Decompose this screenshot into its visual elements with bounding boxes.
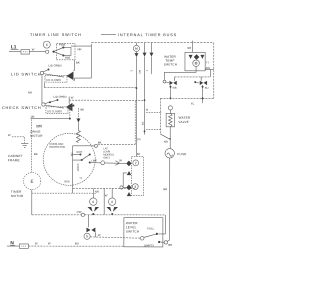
dashed buss lower [73, 187, 136, 189]
motor switch arrow bottom [127, 192, 131, 196]
svg-text:W: W [146, 109, 149, 112]
svg-text:2: 2 [130, 70, 133, 72]
contact jaws [106, 207, 111, 212]
valve drop wires with junctions [169, 85, 171, 98]
svg-text:MOTOR: MOTOR [30, 134, 43, 138]
wire NR to buss [71, 45, 91, 47]
svg-text:SWITCH: SWITCH [126, 229, 139, 233]
lid switch blade [43, 74, 64, 77]
long wire y215 [32, 214, 81, 216]
drive motor circle [43, 133, 95, 185]
svg-text:1M: 1M [30, 115, 35, 119]
water temp switch box [185, 52, 205, 71]
right valve contacts [200, 81, 204, 85]
blade to full [144, 234, 157, 238]
temp switch rotor [193, 60, 200, 67]
fuse F1 [165, 149, 174, 158]
motor switch contact diamond upper [126, 161, 131, 167]
motor terminal [94, 144, 97, 147]
check switch lid closed box [46, 107, 68, 114]
buss drop to temp switch [191, 41, 193, 53]
check switch contact dot 2 [49, 101, 51, 103]
junction wire A [136, 87, 138, 89]
check switch blade [45, 105, 64, 108]
motor switch diamond lower [126, 185, 131, 191]
svg-text:W: W [48, 241, 51, 245]
svg-text:LINE: LINE [91, 160, 97, 163]
drop wire down to motor switch [135, 57, 137, 156]
timer line switch pivot [52, 51, 54, 53]
switch blade upper [54, 47, 64, 51]
winding links [73, 154, 81, 156]
right side buss drop [213, 43, 215, 99]
svg-text:8: 8 [111, 200, 113, 204]
svg-text:FULL: FULL [147, 226, 154, 230]
check switch contact dot 3 [72, 105, 74, 107]
svg-text:BK: BK [80, 108, 84, 112]
chevron connector [115, 161, 119, 166]
svg-text:YL: YL [79, 177, 83, 180]
water level pivot [140, 236, 144, 240]
svg-text:5: 5 [86, 234, 88, 238]
svg-text:3Ø8: 3Ø8 [36, 124, 43, 128]
svg-text:2M: 2M [70, 153, 73, 156]
step wires left of switch [123, 173, 127, 188]
timer contact drop 3 [150, 43, 152, 53]
contact jaws [87, 207, 92, 212]
svg-text:LID CLOSED: LID CLOSED [46, 79, 61, 82]
water level switch box [124, 218, 163, 247]
lid switch plunger arrow [66, 72, 73, 81]
svg-text:BK: BK [98, 140, 102, 144]
wire BK from timer line switch [73, 60, 75, 71]
bottom timer contact 6 [92, 188, 94, 198]
svg-text:BK: BK [34, 152, 38, 156]
svg-text:W: W [71, 96, 74, 100]
svg-text:BR: BR [163, 187, 167, 191]
motor winding terminal dots [79, 154, 81, 156]
right valve contact dot [194, 81, 196, 83]
capacitor terminal [101, 161, 105, 165]
svg-text:NR: NR [164, 140, 168, 144]
overload protector heater coil [76, 131, 80, 143]
motor enclosure bottom [32, 192, 97, 194]
svg-text:TT: TT [206, 61, 210, 65]
motor internal bus [71, 146, 73, 193]
bottom timer contact 8 [111, 188, 113, 198]
svg-text:START: START [76, 164, 79, 172]
svg-text:NR: NR [95, 190, 99, 194]
wire to water level switch [90, 237, 140, 238]
svg-text:1M: 1M [118, 159, 121, 162]
svg-text:6: 6 [92, 200, 94, 204]
contact R58 [62, 54, 64, 56]
svg-text:CW: CW [77, 210, 82, 214]
water valve solenoid coil [166, 113, 174, 127]
svg-text:2: 2 [135, 161, 137, 165]
AW wire to right buss [205, 69, 214, 71]
cam follower arrow [134, 53, 138, 57]
lid closed box [45, 76, 67, 83]
svg-text:NR: NR [77, 47, 81, 51]
wire capacitor to motor switch [105, 162, 127, 165]
connector terminal on wire [81, 213, 84, 216]
lid switch pivot [40, 71, 43, 74]
contact PWA [62, 46, 64, 48]
svg-text:NR: NR [28, 91, 32, 95]
leader line to buss [101, 34, 116, 36]
lid switch contact [47, 69, 49, 71]
timer motor wire down to buss wire [31, 190, 33, 215]
motor cam circled M [133, 45, 139, 51]
svg-text:M: M [135, 47, 138, 51]
check switch contact [56, 99, 58, 101]
svg-text:W: W [8, 133, 11, 137]
valve feed wire [175, 76, 211, 78]
center drop wire [103, 188, 105, 214]
left valve terminal [163, 80, 166, 83]
line cord connector at L1 [21, 50, 30, 54]
check switch output terminal [69, 107, 71, 109]
neutral wire [28, 245, 123, 247]
water valve dashed bus [160, 97, 213, 99]
temp switch arrows [189, 55, 193, 59]
motor switch terminal 4 [132, 184, 138, 190]
svg-text:6: 6 [46, 43, 48, 47]
switch blade lower [54, 52, 64, 56]
svg-text:W: W [105, 193, 108, 197]
ground cabinet frame [21, 143, 28, 145]
svg-text:VALVE: VALVE [178, 120, 189, 124]
svg-text:NR: NR [187, 46, 191, 50]
svg-text:1: 1 [145, 70, 148, 72]
dashed link to water valve upper [146, 111, 162, 113]
svg-text:LID SWITCH: LID SWITCH [11, 73, 41, 77]
check switch plunger arrow [66, 103, 73, 112]
svg-text:W: W [98, 233, 101, 237]
svg-text:EMPTY: EMPTY [144, 243, 154, 247]
lower contact pair [88, 215, 90, 227]
wire A lid switch to timer [44, 87, 136, 89]
svg-text:INTERNAL TIMER BUSS: INTERNAL TIMER BUSS [118, 33, 177, 37]
wire down to 1M junction [69, 109, 71, 118]
full contact [156, 233, 158, 235]
terminal id circled 6 [43, 41, 50, 48]
svg-text:BK: BK [137, 153, 141, 156]
wire lid switch down to check switch [41, 75, 43, 103]
motor internal feed wire [73, 145, 95, 147]
empty terminal wire [160, 241, 164, 243]
motor switch terminal 2 [133, 160, 139, 166]
svg-text:BR: BR [168, 243, 172, 247]
svg-text:CHECK SWITCH: CHECK SWITCH [2, 106, 42, 110]
cam follower arrow [149, 53, 153, 57]
drive motor enclosure dashed [31, 119, 33, 172]
wire B check switch to timer [69, 99, 144, 101]
svg-text:SWITCH: SWITCH [164, 62, 177, 66]
svg-text:PROTECTOR: PROTECTOR [49, 146, 65, 149]
fuse wire down [169, 158, 171, 240]
wire LINE to capacitor terminal [91, 162, 101, 164]
wire BK down to overload [77, 108, 79, 119]
svg-text:MOTOR: MOTOR [11, 194, 24, 198]
capacitor dashed box line BK [98, 144, 135, 146]
wire right end down to water level switch [158, 215, 165, 234]
wire 1M to drive motor [31, 118, 70, 120]
buss left drop to lid switch [74, 46, 91, 78]
svg-text:2M: 2M [137, 138, 140, 141]
motor switch arrow mid [127, 171, 131, 175]
svg-text:R58: R58 [65, 56, 71, 60]
svg-text:LID CLOSED: LID CLOSED [47, 110, 62, 113]
timer contact drop 2 [144, 43, 146, 53]
timer contact M drop [135, 43, 137, 46]
wire L1 to switch, label W [29, 51, 45, 53]
dashed link to water valve lower [146, 129, 162, 131]
svg-text:WHT: WHT [76, 151, 82, 154]
plunger arrow to overload [76, 119, 80, 123]
open terminal lower [120, 186, 123, 189]
svg-text:FRAME: FRAME [8, 158, 20, 162]
svg-text:LID OPEN: LID OPEN [48, 64, 61, 68]
circled terminal 5 [84, 233, 90, 239]
svg-text:LID OPEN: LID OPEN [53, 95, 66, 99]
svg-text:ONLY: ONLY [103, 157, 110, 160]
svg-text:FUSE: FUSE [177, 152, 186, 156]
line cord connector at N [19, 244, 28, 248]
contact tie bar [63, 47, 71, 55]
svg-text:BU: BU [205, 87, 209, 90]
svg-text:E: E [31, 179, 34, 184]
solenoid terminal [168, 106, 172, 110]
fuse wire from water valve [169, 138, 171, 140]
svg-text:BU: BU [75, 241, 79, 245]
timer motor circle [24, 172, 41, 189]
temp switch output to valves [164, 66, 196, 79]
svg-text:FL: FL [191, 102, 195, 106]
svg-text:RED: RED [64, 181, 69, 184]
motor switch box [131, 157, 143, 196]
cam follower arrow [143, 53, 147, 57]
check switch pivot [42, 103, 45, 106]
left valve contacts [169, 81, 173, 85]
wire W from check switch up [68, 97, 70, 105]
internal timer buss line [91, 43, 213, 46]
svg-text:BO: BO [138, 70, 141, 74]
svg-text:BK: BK [76, 61, 80, 65]
svg-text:W: W [32, 47, 35, 51]
svg-text:TIMER LINE SWITCH: TIMER LINE SWITCH [30, 33, 82, 37]
dashed enclosure right of capacitor [134, 101, 136, 145]
timer line switch box [56, 43, 75, 60]
svg-text:WB: WB [172, 87, 176, 90]
svg-text:2M: 2M [141, 122, 144, 125]
svg-text:W: W [35, 241, 38, 245]
ground wire W [12, 137, 25, 144]
open terminal [46, 50, 49, 53]
empty contact [158, 241, 160, 243]
svg-text:4: 4 [134, 185, 136, 189]
